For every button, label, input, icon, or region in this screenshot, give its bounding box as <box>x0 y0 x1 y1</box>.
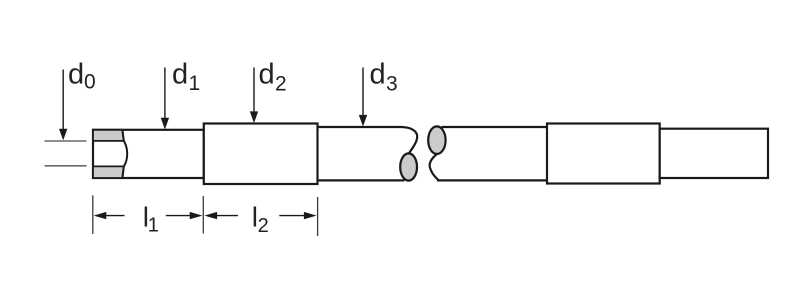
svg-text:d: d <box>370 59 386 91</box>
right shaft bottom line <box>437 179 547 181</box>
d0 arrow <box>62 70 64 130</box>
right large block <box>547 124 660 184</box>
l1 extension line left <box>92 195 94 234</box>
shaft section d2 (large block left) <box>204 124 318 185</box>
l1 dimension arrow right <box>166 215 191 217</box>
l2 dimension arrow right <box>279 215 304 217</box>
svg-text:d: d <box>68 59 84 91</box>
thread shaded band top <box>93 130 124 141</box>
break symbol left: open curve <box>403 127 417 154</box>
l2 extension line right <box>317 197 319 236</box>
svg-text:d: d <box>259 59 275 91</box>
l1/l2 extension line middle <box>202 196 204 234</box>
shaft section d3 top line <box>318 126 404 128</box>
svg-text:1: 1 <box>189 72 201 95</box>
d3 arrow <box>362 68 364 117</box>
svg-text:3: 3 <box>386 73 398 96</box>
break symbol left: shaded lobe <box>400 153 417 180</box>
right end section <box>660 129 768 178</box>
d0 extension line lower <box>45 165 87 167</box>
break symbol right: open curve <box>430 154 439 180</box>
l1 dimension arrow left <box>94 212 107 219</box>
right shaft top line <box>442 126 548 128</box>
thread runout curve <box>122 130 127 178</box>
l2 dimension arrow left <box>204 212 217 219</box>
shaft section d3 bottom line <box>318 179 405 181</box>
svg-text:2: 2 <box>275 73 287 96</box>
svg-text:0: 0 <box>84 71 96 94</box>
shaft section d1 (left, includes threaded end outline) <box>93 130 204 178</box>
svg-text:d: d <box>172 59 188 91</box>
svg-text:2: 2 <box>258 215 269 237</box>
svg-text:1: 1 <box>148 215 159 237</box>
d2 arrow <box>253 68 255 113</box>
d0 extension line upper <box>45 140 87 142</box>
break symbol right: shaded lobe <box>428 126 445 154</box>
thread shaded band bottom <box>93 166 124 178</box>
d1 arrow <box>164 68 166 120</box>
